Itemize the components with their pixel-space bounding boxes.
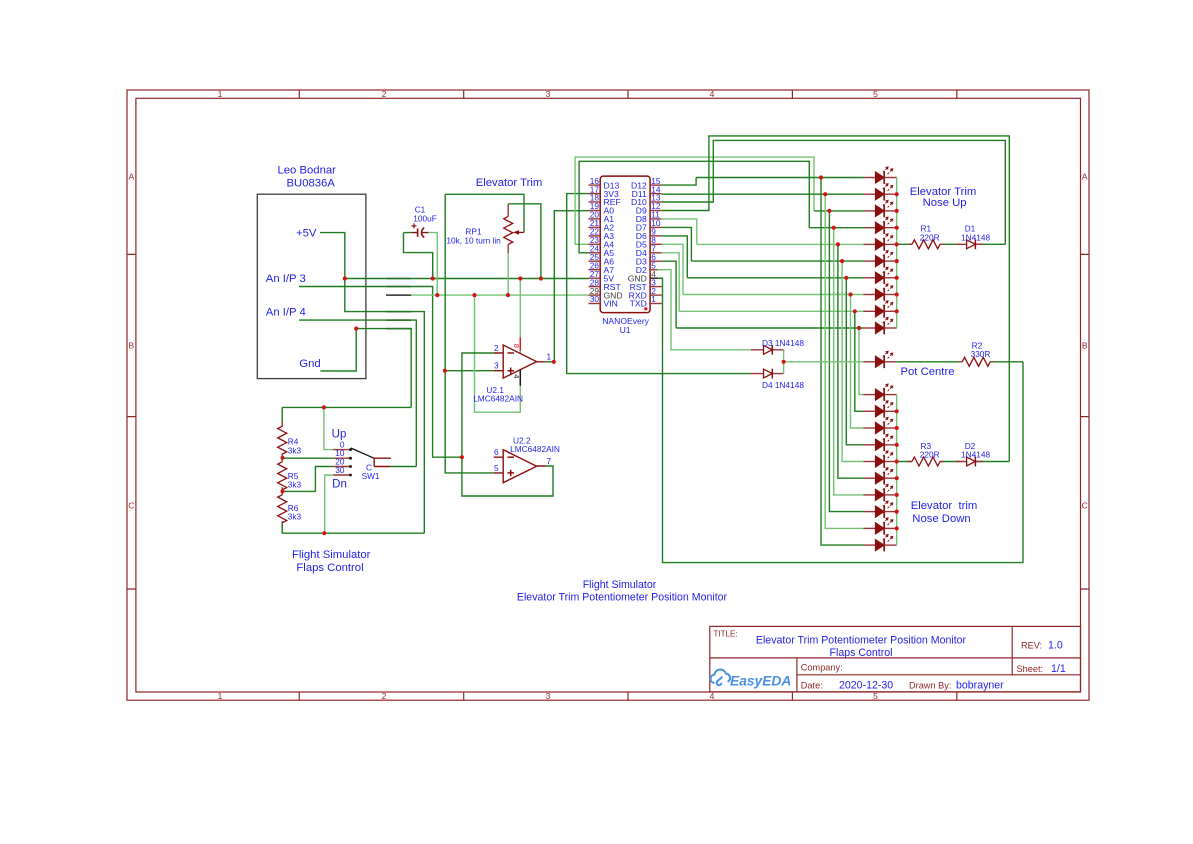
U1 pins right bbox=[628, 176, 662, 309]
wire LED anode rows top group bbox=[662, 178, 864, 329]
LED nose-down 9 bbox=[864, 517, 897, 535]
connector pin stubs bbox=[386, 279, 411, 329]
wire D4 net to U1 pin17 bbox=[567, 194, 751, 374]
title block bbox=[710, 626, 1081, 691]
svg-text:1/1: 1/1 bbox=[1051, 663, 1066, 675]
resistor R4 bbox=[281, 407, 283, 426]
svg-text:C: C bbox=[128, 501, 134, 511]
svg-text:VIN: VIN bbox=[604, 299, 618, 309]
wire RP1 bottom drop bbox=[507, 253, 509, 295]
svg-text:1N4148: 1N4148 bbox=[961, 450, 990, 460]
svg-text:Nose Up: Nose Up bbox=[923, 197, 967, 209]
label R3 220R bbox=[920, 441, 940, 460]
svg-text:Flight Simulator: Flight Simulator bbox=[292, 549, 371, 561]
svg-text:Flaps Control: Flaps Control bbox=[830, 647, 893, 659]
svg-text:A: A bbox=[1082, 172, 1088, 182]
svg-text:2: 2 bbox=[382, 89, 387, 99]
capacitor C1 bbox=[412, 223, 429, 237]
svg-text:Pot Centre: Pot Centre bbox=[900, 366, 954, 378]
LED nose-down 8 bbox=[864, 500, 897, 518]
svg-text:30: 30 bbox=[590, 294, 600, 304]
svg-text:Up: Up bbox=[332, 429, 347, 441]
label NANOEvery U1 bbox=[602, 316, 649, 335]
svg-text:An I/P 4: An I/P 4 bbox=[266, 307, 306, 319]
wire light row to U1 pin29 bbox=[411, 294, 589, 296]
svg-text:Elevator Trim: Elevator Trim bbox=[476, 177, 543, 189]
label D1 1N4148 bbox=[961, 224, 990, 243]
label Flight Simulator Elevator Trim Potentiometer Position Monitor bbox=[517, 579, 728, 604]
svg-text:An I/P 3: An I/P 3 bbox=[266, 273, 306, 285]
svg-text:1: 1 bbox=[547, 352, 552, 362]
wire net row to U1 pin27 bbox=[345, 278, 589, 280]
wire top cathode rail bbox=[896, 178, 898, 329]
wire lower cathode rail bbox=[896, 395, 898, 545]
U1 pin1 mark bbox=[644, 307, 647, 310]
wire An I/P 3 run bbox=[299, 287, 462, 458]
LED nose-down 7 bbox=[864, 484, 897, 502]
svg-text:2020-12-30: 2020-12-30 bbox=[839, 680, 893, 692]
op-amp U2.2 bbox=[494, 450, 546, 483]
svg-text:3: 3 bbox=[546, 691, 551, 701]
svg-text:Dn: Dn bbox=[332, 479, 347, 491]
svg-text:10k, 10 turn lin: 10k, 10 turn lin bbox=[446, 236, 501, 246]
wire SW1 contact 20 bbox=[283, 467, 334, 492]
label SW1 contact numbers bbox=[335, 440, 345, 475]
wire U1 pin11 staircase bbox=[662, 219, 697, 244]
LED nose-down 5 bbox=[864, 450, 897, 468]
LED nose-down 10 bbox=[864, 534, 897, 552]
svg-text:2: 2 bbox=[382, 691, 387, 701]
diode D4 bbox=[751, 373, 784, 375]
svg-text:Company:: Company: bbox=[801, 663, 843, 673]
wire C1 minus loop bbox=[404, 233, 433, 279]
switch SW1 contacts bbox=[333, 450, 350, 475]
LED nose-up 1 bbox=[864, 166, 897, 184]
label RP1 bbox=[446, 227, 501, 246]
svg-text:Leo Bodnar: Leo Bodnar bbox=[277, 165, 336, 177]
LED pot centre bbox=[864, 351, 897, 369]
wire flaps bottom rail bbox=[282, 524, 424, 533]
svg-text:B: B bbox=[1082, 341, 1088, 351]
switch SW1 lever and common bbox=[351, 448, 374, 458]
LED nose-down 2 bbox=[864, 400, 897, 418]
wire D3-D4 junction bbox=[783, 350, 785, 374]
svg-text:1: 1 bbox=[218, 691, 223, 701]
label C1 100uF bbox=[413, 205, 437, 224]
wire U1 pin24 over-the-top to LED4 bbox=[579, 161, 809, 253]
label U2.1 bbox=[473, 385, 523, 404]
wire U1 pin15 to LED1 row bbox=[662, 178, 696, 186]
op-amp U2.1 bbox=[494, 338, 546, 386]
svg-text:Elevator Trim Potentiometer Po: Elevator Trim Potentiometer Position Mon… bbox=[517, 592, 728, 604]
svg-text:6: 6 bbox=[494, 447, 499, 457]
LED nose-down 3 bbox=[864, 417, 897, 435]
svg-text:Gnd: Gnd bbox=[299, 358, 320, 370]
svg-text:4: 4 bbox=[710, 691, 715, 701]
svg-text:Drawn By:: Drawn By: bbox=[909, 681, 951, 691]
LED nose-up 10 bbox=[864, 317, 897, 335]
svg-text:2: 2 bbox=[494, 343, 499, 353]
svg-text:LMC6482AIN: LMC6482AIN bbox=[510, 444, 560, 454]
label Flight Simulator Flaps Control bbox=[292, 549, 371, 574]
wire flaps top rail bbox=[282, 406, 411, 408]
wire SW1 common out bbox=[391, 466, 416, 468]
diode D3 bbox=[751, 349, 784, 351]
svg-text:330R: 330R bbox=[971, 349, 991, 359]
resistor R1 + diode D1 bbox=[897, 243, 1006, 245]
wire U1 pin12 top loop to D2 bbox=[662, 136, 1010, 462]
wire U1 pin5 drop to D3 bbox=[657, 270, 751, 350]
LED nose-up 7 bbox=[864, 267, 897, 285]
label C SW1 bbox=[366, 462, 372, 472]
wire pot ends loop bbox=[475, 279, 521, 413]
wire U1 pin8 staircase bbox=[662, 244, 683, 294]
label R6 3k3 bbox=[288, 503, 302, 522]
svg-text:4: 4 bbox=[710, 89, 715, 99]
LED nose-up 3 bbox=[864, 200, 897, 218]
resistor R2 bbox=[897, 361, 1023, 363]
LED nose-up 8 bbox=[864, 283, 897, 301]
label R2 330R bbox=[971, 340, 991, 359]
LED nose-up 2 bbox=[864, 183, 897, 201]
svg-text:D4 1N4148: D4 1N4148 bbox=[762, 380, 804, 390]
wire C1 plus drop bbox=[429, 233, 438, 296]
EasyEDA logo bbox=[711, 669, 730, 685]
label Elevator Trim Nose Up bbox=[910, 186, 977, 209]
svg-text:SW1: SW1 bbox=[362, 471, 380, 481]
label Elevator trim Nose Down bbox=[911, 500, 978, 525]
wire SW1 contact 10 bbox=[283, 457, 334, 459]
label R5 3k3 bbox=[288, 471, 302, 490]
svg-text:TITLE:: TITLE: bbox=[714, 630, 738, 639]
svg-text:EasyEDA: EasyEDA bbox=[730, 674, 791, 689]
svg-text:8: 8 bbox=[512, 344, 521, 348]
wire LED column bundle verticals bbox=[821, 178, 864, 546]
svg-text:3: 3 bbox=[546, 89, 551, 99]
svg-text:C: C bbox=[1082, 501, 1088, 511]
svg-text:1.0: 1.0 bbox=[1048, 640, 1063, 652]
label Leo Bodnar BU0836A bbox=[277, 165, 336, 190]
svg-text:4: 4 bbox=[512, 374, 521, 378]
wire U1 pin7 staircase bbox=[662, 253, 679, 311]
svg-text:Flight Simulator: Flight Simulator bbox=[583, 579, 657, 591]
svg-text:3k3: 3k3 bbox=[288, 512, 302, 522]
wire SW1 contact 30 bbox=[325, 475, 333, 533]
resistor R6 bbox=[281, 491, 283, 526]
U1 pins left bbox=[589, 176, 623, 309]
svg-text:3: 3 bbox=[494, 361, 499, 371]
LED nose-up 5 bbox=[864, 233, 897, 251]
potentiometer RP1 bbox=[508, 204, 524, 253]
svg-text:Nose Down: Nose Down bbox=[912, 513, 970, 525]
svg-text:bobrayner: bobrayner bbox=[956, 680, 1004, 692]
svg-text:3k3: 3k3 bbox=[288, 445, 302, 455]
LED nose-down 6 bbox=[864, 467, 897, 485]
box pin labels bbox=[266, 228, 321, 370]
wire pot centre anode bbox=[784, 361, 864, 363]
svg-text:30: 30 bbox=[335, 465, 345, 475]
wire SW1 contact 0 bbox=[324, 407, 333, 449]
label D2 1N4148 bbox=[961, 441, 990, 460]
wire U2.2 feedback loop bbox=[462, 457, 553, 496]
wire An I/P 4 run to SW1 common bbox=[299, 320, 416, 466]
svg-text:TXD: TXD bbox=[630, 299, 647, 309]
LED nose-up 9 bbox=[864, 300, 897, 318]
svg-text:LMC6482AIN: LMC6482AIN bbox=[473, 394, 523, 404]
IC U1 NANOEvery bbox=[600, 176, 650, 313]
svg-text:220R: 220R bbox=[920, 450, 940, 460]
svg-text:5: 5 bbox=[873, 691, 878, 701]
svg-text:Elevator trim: Elevator trim bbox=[911, 500, 978, 512]
LED nose-down 1 bbox=[864, 383, 897, 401]
svg-text:Sheet:: Sheet: bbox=[1017, 664, 1044, 674]
svg-text:7: 7 bbox=[547, 456, 552, 466]
svg-text:B: B bbox=[128, 341, 134, 351]
label R1 220R bbox=[920, 224, 940, 243]
svg-text:REV:: REV: bbox=[1021, 641, 1042, 651]
wire pot loop top bbox=[445, 194, 524, 232]
label U2.2 bbox=[510, 435, 560, 454]
resistor R3 + diode D2 bbox=[897, 461, 1010, 463]
svg-text:A: A bbox=[128, 172, 134, 182]
svg-text:Elevator Trim Potentiometer Po: Elevator Trim Potentiometer Position Mon… bbox=[756, 635, 967, 647]
LED nose-down 4 bbox=[864, 434, 897, 452]
svg-text:100uF: 100uF bbox=[413, 214, 437, 224]
wire U1 pin6 staircase bbox=[662, 261, 676, 328]
wire pot left leg to op-amp inputs bbox=[445, 194, 494, 473]
svg-text:U1: U1 bbox=[620, 325, 631, 335]
svg-text:BU0836A: BU0836A bbox=[287, 178, 336, 190]
LED nose-up 6 bbox=[864, 250, 897, 267]
wire +5V run bbox=[320, 233, 424, 534]
wire U1 pin10 staircase bbox=[662, 227, 692, 261]
svg-text:5: 5 bbox=[873, 89, 878, 99]
svg-text:+5V: +5V bbox=[296, 228, 317, 240]
svg-text:1N4148: 1N4148 bbox=[961, 232, 990, 242]
wire U2.1 pin2 bbox=[462, 353, 494, 457]
resistor R5 bbox=[281, 458, 283, 492]
svg-text:Date:: Date: bbox=[801, 681, 823, 691]
svg-text:1: 1 bbox=[218, 89, 223, 99]
wire RP1 top elbow bbox=[508, 204, 541, 279]
label R4 3k3 bbox=[288, 437, 302, 456]
wire U1 pin9 staircase bbox=[662, 236, 688, 278]
svg-text:D3 1N4148: D3 1N4148 bbox=[762, 338, 804, 348]
svg-text:1: 1 bbox=[651, 294, 656, 304]
svg-text:Flaps Control: Flaps Control bbox=[296, 562, 363, 574]
wire U2.1 output to U1 pin19 bbox=[546, 211, 589, 362]
sheet border frame bbox=[127, 90, 1089, 700]
LED nose-up 4 bbox=[864, 217, 897, 235]
wire U1 pin13 top loop to D1 bbox=[662, 140, 1006, 244]
wire U1 pin4 GND to bottom bus and R2 return bbox=[650, 277, 658, 279]
junction dots bbox=[280, 175, 898, 535]
svg-text:3k3: 3k3 bbox=[288, 480, 302, 490]
wire Gnd run bbox=[321, 329, 412, 408]
wire U1 pin23 over-the-top to LED3 bbox=[575, 157, 814, 244]
connector J1 Leo Bodnar BU0836A box bbox=[257, 194, 366, 378]
svg-text:5: 5 bbox=[494, 463, 499, 473]
svg-text:220R: 220R bbox=[920, 232, 940, 242]
title text bbox=[756, 635, 967, 660]
